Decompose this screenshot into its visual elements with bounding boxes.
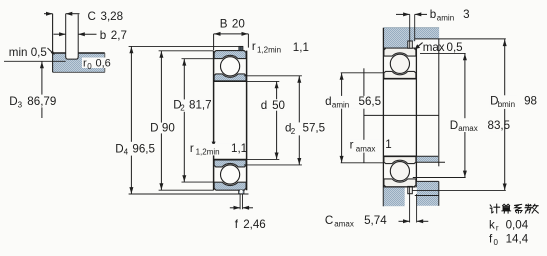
housing top edge [384, 27, 439, 29]
D3 extension line (groove bottom level) [4, 60, 66, 62]
D top extension line [159, 50, 214, 52]
D4 bottom extension line [129, 193, 249, 195]
left face line / housing edge [382, 28, 384, 207]
svg-text:3: 3 [18, 101, 23, 110]
svg-text:3: 3 [463, 8, 469, 21]
svg-text:81,7: 81,7 [189, 99, 212, 112]
housing step lines (bottom right) [416, 180, 439, 182]
f right extension line [242, 194, 244, 210]
d2 top extension line [244, 75, 302, 77]
svg-text:1: 1 [385, 138, 391, 151]
detail block right edge [104, 53, 106, 72]
svg-text:D: D [9, 95, 17, 108]
housing step line / Db extension (top) [415, 38, 506, 40]
svg-text:b: b [100, 29, 106, 42]
dimension b 2,7 [54, 33, 66, 35]
B left extension line [213, 34, 215, 50]
svg-text:amax: amax [334, 219, 354, 228]
damin bottom extension line [341, 162, 384, 164]
D4 top extension line [129, 45, 243, 47]
svg-text:96,5: 96,5 [132, 142, 155, 155]
groove slot (white) in detail block [66, 52, 79, 60]
svg-text:d: d [261, 99, 267, 112]
svg-text:2,46: 2,46 [243, 218, 266, 231]
housing recess line (bottom) [415, 195, 439, 197]
svg-text:D: D [450, 119, 458, 132]
svg-text:b: b [430, 8, 436, 21]
svg-text:amax: amax [458, 124, 478, 133]
svg-text:98: 98 [524, 95, 537, 108]
dimension B 20 (width) [214, 33, 249, 35]
housing section above (shaded) [384, 28, 439, 49]
svg-text:2: 2 [180, 104, 185, 113]
svg-text:56,5: 56,5 [359, 95, 382, 108]
label r0 0,6 inside block [82, 58, 111, 69]
svg-text:amin: amin [437, 14, 454, 23]
svg-text:C: C [88, 10, 96, 23]
svg-text:d: d [325, 95, 331, 108]
snap ring (bottom) [408, 186, 413, 193]
svg-text:83,5: 83,5 [488, 119, 511, 132]
Damax bottom extension line [413, 177, 466, 179]
svg-text:max: max [423, 41, 445, 54]
svg-text:C: C [325, 214, 333, 227]
left face line [213, 51, 215, 191]
svg-text:50: 50 [272, 99, 285, 112]
svg-text:3,28: 3,28 [101, 10, 124, 23]
d bottom extension line [247, 158, 280, 160]
f left extension line [239, 194, 241, 210]
svg-text:1,2min: 1,2min [196, 148, 220, 157]
Ca right extension line [416, 194, 418, 223]
housing right face line [438, 39, 440, 166]
svg-text:5,74: 5,74 [364, 214, 387, 227]
D2 top extension line [182, 58, 214, 60]
housing blocks below (shaded) [384, 187, 405, 206]
svg-text:86,79: 86,79 [27, 95, 56, 108]
svg-text:2,7: 2,7 [111, 29, 127, 42]
D bottom extension line [159, 189, 214, 191]
housing bore line (top) [384, 47, 416, 49]
Damax top extension line [420, 52, 466, 54]
svg-text:57,5: 57,5 [303, 122, 326, 135]
housing bore line (bottom) [384, 186, 416, 188]
groove bottom radius r0 [66, 57, 79, 60]
d top extension line [247, 80, 280, 82]
svg-text:0,5: 0,5 [447, 41, 463, 54]
groove left wall + extension to C dim [65, 14, 67, 58]
right face line [415, 48, 417, 187]
calculation factors heading (CJK) [490, 204, 538, 213]
bearing rings (right, top half) [383, 48, 416, 79]
label r_amax 1 [349, 140, 381, 153]
svg-text:0: 0 [87, 62, 92, 71]
outer ring (top), inner ring (top), ball (top) [214, 51, 246, 59]
dimension b_amin 3 (snap ring clearance) [396, 13, 410, 15]
B right extension line [247, 34, 249, 48]
svg-text:90: 90 [162, 122, 175, 135]
b right extension line [414, 14, 416, 41]
Dbmin bottom extension line [413, 189, 506, 191]
svg-text:k: k [489, 218, 495, 231]
svg-text:r: r [190, 142, 194, 155]
groove right wall + extension to b dim [77, 14, 79, 57]
axis / centre line of right figure [364, 114, 439, 116]
svg-text:0,04: 0,04 [506, 218, 529, 231]
detail block bottom edge [53, 71, 105, 73]
groove detail: outer-ring section block [53, 53, 105, 72]
bearing rings (right, bottom half) [383, 156, 416, 187]
svg-text:D: D [115, 142, 123, 155]
svg-text:min 0,5: min 0,5 [9, 46, 47, 59]
svg-text:0,6: 0,6 [96, 58, 111, 70]
svg-text:B: B [220, 17, 228, 30]
svg-text:r: r [496, 224, 499, 233]
right face line [246, 51, 248, 191]
label max 0,5 with leader [417, 43, 423, 48]
b left extension line [409, 14, 411, 48]
snap ring groove tab (top) [239, 46, 243, 50]
svg-text:1,1: 1,1 [231, 142, 247, 155]
D2 bottom extension line [182, 181, 214, 183]
snap ring (top) [408, 41, 413, 48]
svg-text:14,4: 14,4 [506, 233, 529, 246]
dimension C 3,28 [44, 13, 53, 15]
svg-text:20: 20 [232, 17, 245, 30]
shaft shoulder line (left of right figure) [363, 68, 365, 163]
damin top extension line [341, 72, 384, 74]
svg-text:0: 0 [494, 238, 499, 247]
svg-text:r: r [252, 40, 256, 53]
svg-text:amin: amin [332, 100, 349, 109]
svg-text:r: r [350, 139, 354, 152]
ring face line extended up to C dim (left edge of block) [52, 14, 54, 73]
svg-text:1,1: 1,1 [293, 41, 309, 54]
svg-text:amax: amax [356, 144, 376, 153]
svg-text:1,2min: 1,2min [257, 46, 281, 55]
d2 bottom extension line [244, 164, 302, 166]
snap ring groove tab (bottom) with open slot [239, 190, 244, 194]
Ca left extension line [409, 188, 411, 223]
svg-text:2: 2 [291, 127, 296, 136]
detail block top surface lines [52, 52, 65, 54]
chamfer label r 1,2min 1,1 (bottom) [212, 142, 216, 147]
dimension D3 86,79 [41, 61, 43, 118]
svg-text:4: 4 [124, 148, 129, 157]
svg-text:bmin: bmin [498, 100, 515, 109]
mirrored bottom half: inner ring, ball, outer ring [214, 160, 247, 191]
svg-text:D: D [150, 122, 158, 135]
